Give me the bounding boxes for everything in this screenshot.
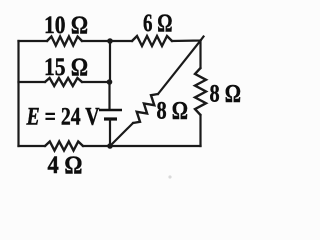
node junction C (middle)	[107, 79, 113, 85]
wire: middle vertical upper segment	[109, 41, 111, 82]
wire: 15Ω row right lead	[82, 81, 110, 83]
wire: battery negative lead	[109, 120, 111, 146]
wire: diagonal upper lead	[158, 41, 201, 95]
svg-text:8 Ω: 8 Ω	[157, 98, 189, 125]
wire: battery positive lead	[108, 82, 110, 109]
wire: diagonal lower lead	[110, 123, 133, 146]
wire: bottom-middle segment	[83, 145, 110, 147]
svg-text:E = 24 V: E = 24 V	[26, 104, 100, 131]
wire: bottom-right segment	[110, 145, 201, 147]
wire: right vertical upper lead	[199, 41, 201, 69]
wire: top-middle segment	[82, 40, 132, 42]
resistor 10Ω	[47, 37, 82, 46]
svg-text:6 Ω: 6 Ω	[143, 10, 173, 37]
resistor 4Ω	[45, 142, 83, 151]
wire: left vertical branch	[17, 41, 19, 146]
svg-text:4 Ω: 4 Ω	[48, 152, 83, 179]
wire: bottom-left segment	[19, 145, 46, 147]
wire: top-right segment	[172, 37, 204, 42]
svg-text:10 Ω: 10 Ω	[44, 12, 88, 39]
svg-text:15 Ω: 15 Ω	[44, 54, 88, 81]
wire: top-left segment	[19, 40, 48, 42]
battery E negative plate (short)	[104, 117, 117, 120]
resistor 6Ω	[132, 36, 172, 46]
wire: right vertical lower lead	[199, 115, 201, 146]
wire: 15Ω row left lead	[19, 81, 46, 83]
battery E positive plate (long)	[99, 109, 122, 112]
node junction A (top)	[107, 38, 113, 44]
svg-text:8 Ω: 8 Ω	[210, 81, 242, 108]
speck (scan artifact)	[168, 175, 171, 178]
resistor 15Ω	[45, 78, 82, 86]
resistor 8Ω (diagonal branch)	[133, 94, 158, 123]
resistor 8Ω (right branch)	[195, 68, 206, 115]
node junction B (bottom)	[107, 143, 113, 149]
